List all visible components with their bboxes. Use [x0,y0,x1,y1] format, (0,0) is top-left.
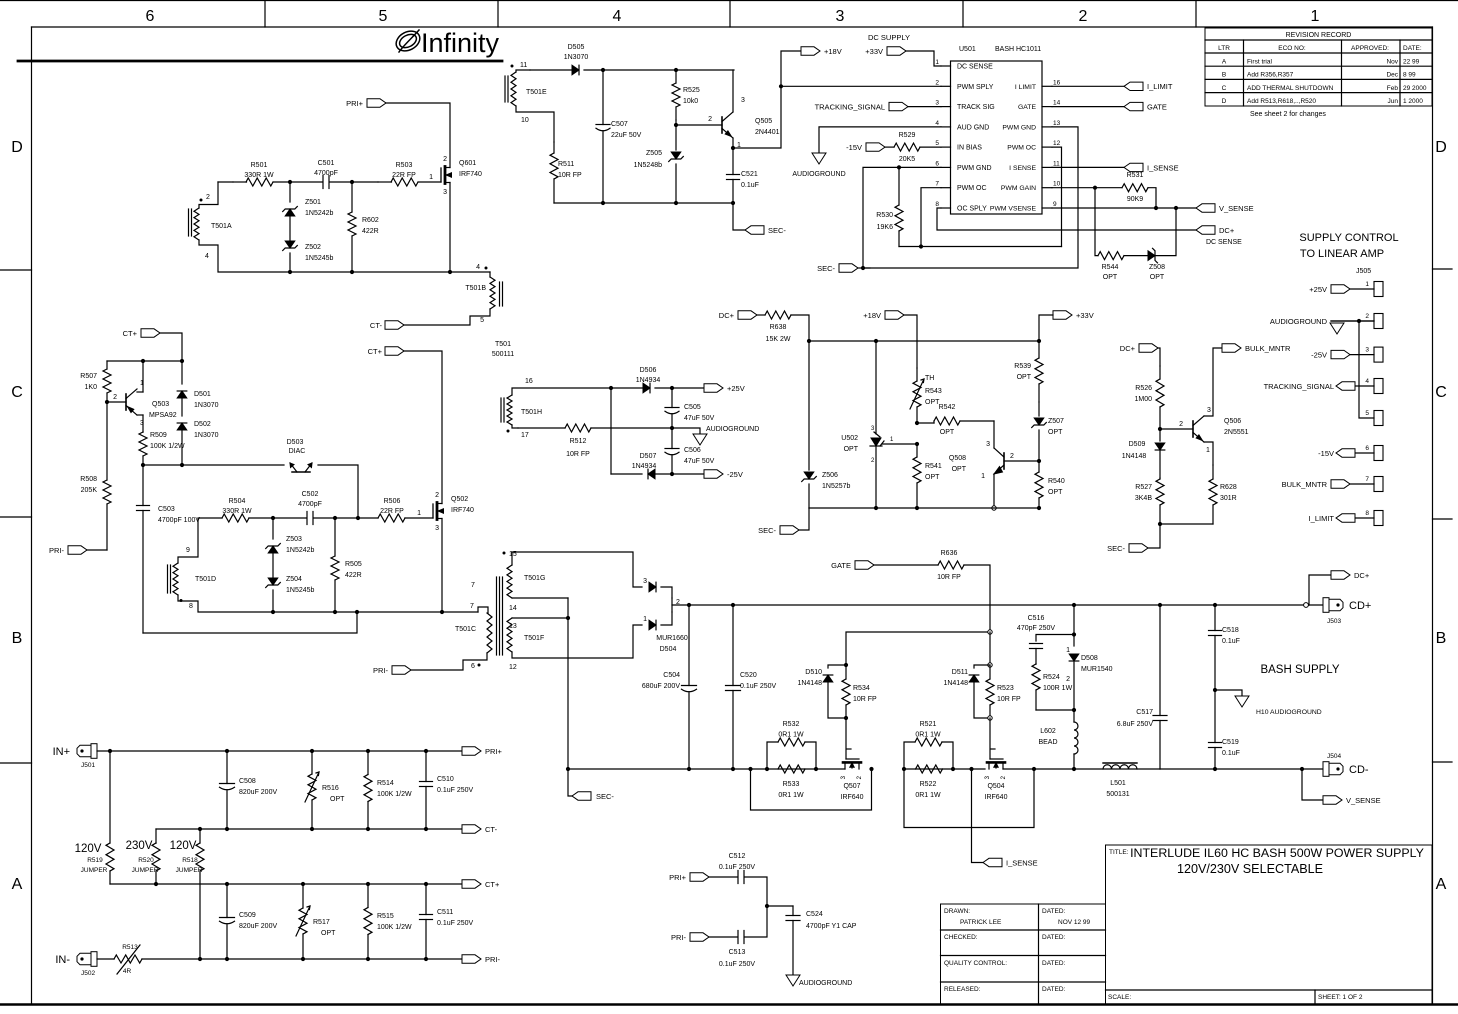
transistor Q507 (IRF640 MOSFET) [847,748,851,750]
svg-text:100R 1W: 100R 1W [1043,685,1073,692]
wire +33V rail [809,340,1039,342]
wire U502 pin1 [882,443,917,445]
wire [273,517,307,519]
svg-text:120V: 120V [75,843,102,855]
junction [670,386,674,390]
wire [318,465,358,518]
svg-text:TO LINEAR AMP: TO LINEAR AMP [1300,248,1384,260]
junction [951,767,955,771]
svg-text:10R FP: 10R FP [566,451,590,458]
svg-text:PRI+: PRI+ [669,873,687,882]
svg-text:A: A [1436,876,1447,893]
svg-text:R515: R515 [377,913,394,920]
svg-text:U501: U501 [959,46,976,53]
svg-text:11: 11 [520,62,527,69]
junction [1357,319,1361,323]
wire pin8 to DC SENSE [937,208,1196,230]
svg-text:PRI+: PRI+ [346,99,364,108]
svg-text:OPT: OPT [940,429,955,436]
svg-text:1N5257b: 1N5257b [822,483,851,490]
wire bash ground rail [568,768,845,770]
svg-text:4700pF 100V: 4700pF 100V [158,517,200,524]
svg-text:C508: C508 [239,778,256,785]
junction [670,426,674,430]
capacitor C520 (0.1uF 250V) [732,605,734,686]
resistor R511 (10R FP) [553,142,555,153]
junction [301,957,305,961]
wire [1160,523,1213,525]
svg-text:R529: R529 [899,132,916,139]
svg-text:2: 2 [1010,453,1014,460]
svg-text:QUALITY CONTROL:: QUALITY CONTROL: [944,960,1007,967]
net flag +25V [704,384,723,392]
resistor R541 (OPT) [916,444,918,457]
svg-text:+18V: +18V [824,47,842,56]
junction [1158,522,1162,526]
wire ctrl ground rail [809,507,1039,509]
resistor R531 (90K9) [1122,184,1148,192]
svg-text:J503: J503 [1327,618,1341,625]
svg-text:D509: D509 [1129,441,1146,448]
svg-text:PRI-: PRI- [49,546,65,555]
svg-text:Z502: Z502 [305,244,321,251]
shunt ref U502 (OPT) [875,341,877,434]
svg-text:17: 17 [521,432,529,439]
svg-text:IN-: IN- [55,954,70,966]
svg-text:IRF640: IRF640 [841,794,864,801]
svg-text:Add R356,R357: Add R356,R357 [1247,72,1294,79]
svg-text:BEAD: BEAD [1038,739,1057,746]
svg-text:R530: R530 [876,212,893,219]
svg-text:4700pF: 4700pF [298,501,322,508]
svg-text:A: A [12,876,23,893]
svg-text:OPT: OPT [1017,374,1032,381]
wire to +25V [672,387,704,389]
svg-text:1N5242b: 1N5242b [286,547,315,554]
svg-text:12: 12 [509,664,517,671]
svg-text:C513: C513 [729,949,746,956]
svg-text:DC+: DC+ [1354,571,1370,580]
svg-text:1N4148: 1N4148 [943,680,968,687]
svg-text:6: 6 [146,8,155,25]
svg-text:V_SENSE: V_SENSE [1219,204,1254,213]
svg-text:H10 AUDIOGROUND: H10 AUDIOGROUND [1256,709,1322,716]
svg-text:3: 3 [443,189,447,196]
transformer T501A [194,208,199,240]
wire [1036,709,1074,711]
diode D504-1 (MUR1660) [649,620,656,630]
svg-text:Q506: Q506 [1224,418,1241,425]
wire R525 to base [675,120,677,125]
wire DIAC row [143,464,284,466]
wire rectified output node 2 [671,598,673,612]
zener Z501 (1N5242b) [289,182,291,202]
junction [271,610,275,614]
transformer T501C primary [487,613,492,653]
zener Z506 (1N5257b) [808,341,810,470]
wire [799,508,809,530]
svg-text:TITLE:: TITLE: [1109,849,1129,856]
junction [225,749,229,753]
resistor R501 [246,178,273,186]
junction [601,201,605,205]
svg-text:R540: R540 [1048,478,1065,485]
svg-text:C517: C517 [1136,709,1153,716]
junction [198,957,202,961]
diode D507 (1N4934) [648,469,655,479]
wire [178,595,273,612]
resistor R638 (15K 2W) [757,314,765,316]
wire [411,653,487,670]
svg-text:2: 2 [1079,8,1088,25]
svg-text:R532: R532 [783,721,800,728]
junction [844,663,848,667]
svg-text:C518: C518 [1222,627,1239,634]
svg-text:R636: R636 [941,550,958,557]
IC U501 BASH HC1011 [951,61,1043,214]
svg-text:2: 2 [1365,313,1369,320]
svg-text:100K 1/2W: 100K 1/2W [377,791,412,798]
junction [874,506,878,510]
net flag SEC- (U501) [839,264,858,272]
svg-text:SHEET: 1 OF 2: SHEET: 1 OF 2 [1318,994,1363,1001]
junction [765,767,769,771]
svg-text:C503: C503 [158,506,175,513]
wire [1155,208,1176,256]
svg-text:5: 5 [379,8,388,25]
svg-text:10R FP: 10R FP [558,172,582,179]
diode D509 (1N4148) [1159,429,1161,441]
junction [333,610,337,614]
net flag DC+ (monitor) [1139,344,1158,352]
junction [180,463,184,467]
svg-text:C507: C507 [611,121,628,128]
pin 14 U501 [1042,106,1052,108]
svg-text:2N4401: 2N4401 [755,129,780,136]
svg-text:PRI-: PRI- [671,933,687,942]
junction [731,146,735,150]
svg-text:1N3070: 1N3070 [194,402,219,409]
junction [310,827,314,831]
wire [745,877,768,906]
wire Q505 collector [732,70,734,112]
junction [440,610,444,614]
svg-text:1: 1 [429,174,433,181]
svg-text:0.1uF 250V: 0.1uF 250V [437,787,474,794]
svg-text:6.8uF 250V: 6.8uF 250V [1117,721,1154,728]
svg-text:CT-: CT- [370,321,383,330]
svg-text:D501: D501 [194,391,211,398]
junction [366,957,370,961]
junction [919,244,923,248]
svg-text:GATE: GATE [1018,104,1036,111]
wire CT+ to Q502 drain [404,351,442,504]
svg-text:Z507: Z507 [1048,418,1064,425]
transformer T501D [173,563,178,595]
junction [1213,603,1217,607]
zener Z508 (OPT) [1148,251,1155,261]
svg-text:D504: D504 [660,646,677,653]
svg-text:B: B [1222,72,1226,79]
resistor R526 (1M00) [1159,366,1161,379]
wire Q601 source [449,183,451,273]
svg-text:3: 3 [643,578,647,585]
svg-text:D503: D503 [287,439,304,446]
junction [355,610,359,614]
svg-text:U502: U502 [841,435,858,442]
svg-text:1N4934: 1N4934 [636,377,661,384]
wire Q502 source [441,519,443,613]
resistor R532 (0R1 1W) bypass loop [767,742,778,769]
varistor R517 (OPT) [299,908,307,934]
svg-text:1K0: 1K0 [85,384,98,391]
svg-text:Q504: Q504 [987,783,1004,790]
svg-text:7: 7 [935,181,939,188]
svg-text:D502: D502 [194,421,211,428]
wire R544 branch [1095,188,1098,256]
svg-text:PWM GND: PWM GND [957,165,992,172]
svg-text:Q502: Q502 [451,496,468,503]
junction [674,68,678,72]
svg-text:5: 5 [480,317,484,324]
svg-text:22R FP: 22R FP [380,508,404,515]
net flag PRI- (input) [462,955,481,963]
wire bottom rail Q601 [290,271,450,273]
svg-text:R512: R512 [570,438,587,445]
svg-text:CT+: CT+ [368,347,383,356]
diode D504-3 (MUR1660) [649,582,656,592]
resistor R507 (1K0) [106,361,108,369]
resistor R525 (10k0) [675,70,677,83]
svg-text:6: 6 [935,160,939,167]
svg-text:SEC-: SEC- [1107,544,1125,553]
svg-text:3: 3 [435,525,439,532]
resistor R524 (100R 1W) [1035,663,1037,665]
svg-text:JUMPER: JUMPER [81,867,108,874]
wire CT- rail [156,828,462,830]
svg-text:JUMPER: JUMPER [132,867,159,874]
pin 12 U501 [1042,146,1052,148]
svg-text:1: 1 [935,59,939,66]
net flag SEC- [745,226,764,234]
junction [350,270,354,274]
junction [1037,339,1041,343]
junction [988,716,992,720]
svg-text:GATE: GATE [1147,103,1167,112]
svg-text:IRF740: IRF740 [459,171,482,178]
svg-text:R506: R506 [384,498,401,505]
svg-text:1: 1 [1206,447,1210,454]
svg-text:R628: R628 [1220,484,1237,491]
diode D510 (1N4148) [828,665,846,668]
resistor R522 (0R1 1W) [916,765,943,773]
svg-text:T501B: T501B [465,285,486,292]
transistor Q504 (IRF640 MOSFET) [991,748,995,750]
svg-text:6: 6 [471,663,475,670]
svg-text:OPT: OPT [1048,489,1063,496]
junction [141,463,145,467]
wire pin10 PWM GAIN [1052,187,1122,189]
svg-text:3: 3 [1207,407,1211,414]
svg-text:C521: C521 [741,171,758,178]
wire DC+ branch [1309,575,1331,605]
svg-text:JUMPER: JUMPER [176,867,203,874]
svg-text:5: 5 [1365,410,1369,417]
junction [988,663,992,667]
transformer T501H [507,395,512,425]
wire [314,517,336,519]
svg-text:TH: TH [925,375,934,382]
audioground (EMI) [786,975,800,986]
svg-text:47uF 50V: 47uF 50V [684,458,715,465]
svg-text:R514: R514 [377,780,394,787]
svg-text:820uF 200V: 820uF 200V [239,789,277,796]
svg-text:0.1uF 250V: 0.1uF 250V [740,683,777,690]
pin 3 U501 [941,106,951,108]
wire [1124,255,1147,257]
resistor R602 (422R) [351,182,353,212]
svg-text:R516: R516 [322,785,339,792]
junction [1174,206,1178,210]
svg-text:IN+: IN+ [53,746,70,758]
capacitor C504 (680uF 200V) [688,605,690,686]
svg-text:BASH SUPPLY: BASH SUPPLY [1260,664,1339,676]
junction [861,266,865,270]
svg-text:R542: R542 [939,404,956,411]
svg-text:330R 1W: 330R 1W [222,508,252,515]
junction [731,201,735,205]
svg-text:Jun: Jun [1388,98,1399,105]
svg-text:R531: R531 [1127,172,1144,179]
wire [87,549,107,551]
svg-text:11: 11 [1053,160,1060,167]
wire V_SENSE [1302,769,1323,800]
sign-off table [941,904,1106,1004]
svg-text:R534: R534 [853,685,870,692]
wire [584,69,734,71]
wire [1148,188,1156,208]
wire to -25V [672,473,704,475]
junction [1032,767,1036,771]
thermistor R543 (TH OPT) [913,381,921,407]
svg-text:1M00: 1M00 [1134,396,1152,403]
svg-text:PRI-: PRI- [485,955,501,964]
svg-text:IRF640: IRF640 [985,794,1008,801]
connector J504 CD- [1302,768,1325,770]
svg-text:BULK_MNTR: BULK_MNTR [1282,480,1328,489]
junction [915,442,919,446]
transistor Q508 (OPT) [1003,453,1005,469]
svg-text:820uF 200V: 820uF 200V [239,923,277,930]
svg-text:19K6: 19K6 [877,224,893,231]
svg-text:J501: J501 [81,762,95,769]
svg-text:I_LIMIT: I_LIMIT [1147,82,1173,91]
junction [1072,767,1076,771]
diode D511 (1N4148) [974,665,990,668]
svg-text:R520: R520 [138,857,154,864]
wire [516,106,554,142]
svg-text:I LIMIT: I LIMIT [1015,84,1036,91]
net flag +33V (ctrl) [1053,311,1072,319]
wire pin4 to audioground [819,127,941,153]
svg-text:Q601: Q601 [459,160,476,167]
svg-text:4700pF: 4700pF [314,170,338,177]
wire +33V to pin1 [906,51,941,66]
zener Z507 (OPT) [1034,418,1044,425]
resistor R530 (19K6) [898,167,900,205]
net flag +33V (DC SUPPLY) [887,47,906,55]
junction [350,180,354,184]
svg-text:C516: C516 [1028,615,1045,622]
svg-text:500131: 500131 [1106,791,1129,798]
svg-text:3: 3 [935,100,939,107]
net flag PRI- [68,546,87,554]
wire [289,216,291,240]
svg-text:0.1uF: 0.1uF [741,182,759,189]
wire D508 column [1073,605,1075,646]
svg-text:T501H: T501H [521,409,542,416]
svg-text:BASH HC1011: BASH HC1011 [995,46,1041,53]
svg-text:2: 2 [435,492,439,499]
svg-text:9: 9 [186,547,190,554]
svg-text:3: 3 [836,8,845,25]
svg-text:0R1 1W: 0R1 1W [915,732,941,739]
wire [709,876,738,878]
svg-text:TRACKING_SIGNAL: TRACKING_SIGNAL [1264,382,1334,391]
capacitor C501 [322,176,324,189]
svg-text:PRI-: PRI- [373,666,389,675]
wire Q506 base [1160,428,1193,430]
wire [661,612,672,625]
svg-text:DATED:: DATED: [1042,908,1066,915]
junction [601,68,605,72]
svg-text:R503: R503 [396,162,413,169]
svg-text:C520: C520 [740,672,757,679]
svg-text:0.1uF 250V: 0.1uF 250V [437,920,474,927]
net flag -25V [704,470,723,478]
svg-text:1N5242b: 1N5242b [305,210,334,217]
pin 9 U501 [1042,207,1052,209]
svg-text:PWM GND: PWM GND [1002,124,1036,131]
svg-text:R543: R543 [925,388,942,395]
pin 8 U501 [941,207,951,209]
audioground H10 [1215,690,1242,696]
pin 16 U501 [1042,85,1052,87]
svg-text:CHECKED:: CHECKED: [944,934,978,941]
wire pin12 PWM OC loop [1052,147,1062,246]
wire [530,69,571,71]
capacitor C503 (4700pF 100V) [142,465,144,506]
svg-text:PRI+: PRI+ [485,747,503,756]
pin 5 U501 [941,146,951,148]
svg-text:DRAWN:: DRAWN: [944,908,970,915]
svg-text:CD-: CD- [1349,764,1369,776]
junction [225,882,229,886]
svg-text:4: 4 [1365,378,1369,385]
svg-text:1 2000: 1 2000 [1403,98,1423,105]
svg-text:AUDIOGROUND: AUDIOGROUND [706,426,759,433]
svg-text:2: 2 [206,194,210,201]
svg-text:C: C [1222,85,1227,92]
wire [993,421,995,448]
junction [902,767,906,771]
svg-text:Infinity: Infinity [421,28,500,58]
junction [271,516,275,520]
J505 pin 8 [1374,511,1383,526]
net flag I_SENSE (U501) [1124,163,1143,171]
svg-text:IN BIAS: IN BIAS [957,145,982,152]
svg-text:Q505: Q505 [755,118,772,125]
